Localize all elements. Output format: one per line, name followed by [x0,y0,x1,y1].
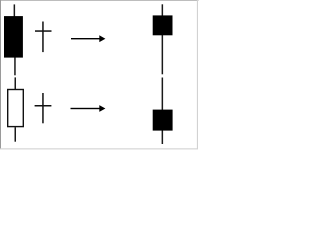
candle D body (black) [153,110,173,131]
candle A lower wick [14,58,16,76]
border left [0,0,1,149]
candle B wick [162,4,164,74]
arrow 2 head [99,105,105,112]
candle A body (black) [4,16,23,58]
arrow 1 shaft [71,38,101,39]
doji 2 vertical line [42,93,44,123]
border bottom [0,148,198,149]
doji 1 vertical line [42,22,44,53]
doji 1 horizontal line [35,30,52,32]
arrow 2 shaft [71,108,101,109]
candle D wick [162,78,164,145]
candle C upper wick [15,77,17,89]
candle B body (black) [153,15,173,35]
border top [0,0,199,1]
candle C body (white hollow) [8,90,24,127]
doji 2 horizontal line [35,105,52,107]
arrow 1 head [99,35,105,42]
candle A upper wick [14,4,16,16]
candle C lower wick [15,127,17,142]
border right [197,0,198,149]
